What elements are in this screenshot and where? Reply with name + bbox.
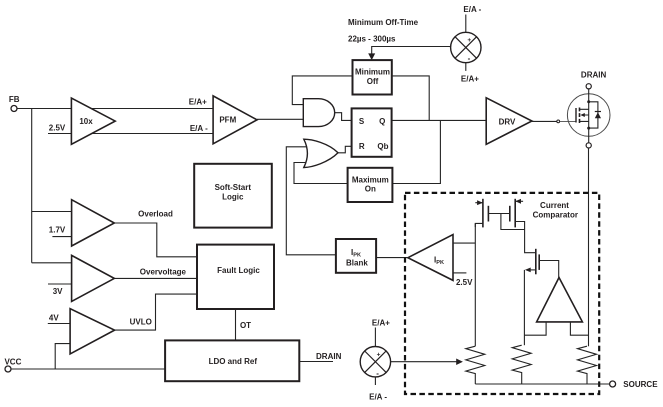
svg-text:E/A -: E/A - — [190, 124, 208, 133]
svg-text:+: + — [467, 37, 471, 44]
transistor Q1 power MOSFET — [567, 89, 610, 143]
svg-text:4V: 4V — [49, 314, 59, 323]
amplifier 10x — [71, 98, 115, 144]
wire Q output to DRV — [392, 119, 487, 121]
wire mirror diode connection — [501, 214, 525, 230]
block Minimum Off — [353, 60, 392, 94]
wire PFM output to AND gate — [257, 118, 303, 120]
svg-text:Blank: Blank — [346, 259, 368, 268]
block Current Comparator dashed boundary — [405, 193, 599, 394]
wire multiplier to Minimum Off with arrow — [368, 47, 451, 61]
wire bottom multiplier to R1 with arrow — [391, 359, 463, 366]
svg-text:Fault Logic: Fault Logic — [217, 266, 260, 275]
svg-text:-: - — [376, 369, 379, 378]
wire FB to overvoltage comparator input — [32, 262, 72, 264]
wire E/A+ into top multiplier — [465, 63, 467, 71]
svg-text:S: S — [359, 117, 365, 126]
svg-text:Overvoltage: Overvoltage — [140, 267, 187, 276]
comparator overvoltage — [72, 255, 115, 301]
svg-text:Qb: Qb — [377, 142, 388, 151]
op-amp U4 current comparator — [537, 278, 583, 322]
wire DRV output to MOSFET gate — [532, 120, 576, 123]
block Maximum On — [348, 168, 393, 202]
wire IPK Blank output to OR gate — [286, 147, 336, 255]
resistor R2 — [512, 345, 531, 384]
driver DRV — [486, 98, 532, 145]
comparator IPK — [408, 235, 453, 281]
wire VCC rail to LDO — [11, 368, 165, 370]
svg-text:22µs - 300µs: 22µs - 300µs — [348, 35, 396, 44]
resistor R1 — [466, 346, 485, 384]
wire source sense rail — [475, 383, 609, 385]
wire 2.5V reference to 10x amp and PFM E/A- input — [48, 133, 213, 135]
wire overvoltage comparator output to Fault Logic — [114, 277, 197, 279]
wire mirror gates — [488, 213, 509, 215]
svg-text:Current: Current — [540, 201, 569, 210]
wire 3V stub — [48, 283, 72, 285]
svg-text:10x: 10x — [79, 117, 93, 126]
svg-text:DRV: DRV — [499, 118, 516, 127]
wire FB vertical to comparators — [31, 109, 33, 263]
block Soft-Start Logic — [194, 164, 272, 228]
svg-text:1.7V: 1.7V — [49, 226, 66, 235]
svg-text:-: - — [468, 54, 471, 63]
wire IPK comparator output to IPK Blank — [376, 257, 408, 259]
comparator PFM — [213, 96, 257, 144]
wire 1.7V stub — [52, 236, 71, 238]
svg-text:3V: 3V — [53, 287, 63, 296]
block LDO and Ref — [165, 340, 299, 381]
wire FB to PFM E/A+ input — [17, 108, 213, 110]
block SR latch U3 — [352, 108, 392, 156]
wire op-amp left input leg — [524, 322, 546, 335]
wire 2.5V stub (IPK comparator) — [453, 272, 466, 274]
svg-text:Overload: Overload — [138, 210, 173, 219]
node VCC terminal — [4, 358, 21, 373]
svg-text:+: + — [377, 352, 381, 359]
wire OT from Fault Logic to LDO — [235, 309, 237, 340]
wire DRAIN output stub from LDO — [299, 361, 333, 363]
svg-text:DRAIN: DRAIN — [581, 71, 607, 80]
wire VCC to UVLO comparator input — [55, 344, 70, 369]
svg-text:UVLO: UVLO — [130, 318, 152, 327]
comparator UVLO — [70, 309, 115, 354]
wire left mirror leg down to resistor — [474, 223, 476, 346]
multiplier U5 (E/A bottom) — [360, 347, 390, 379]
transistor Q4 cascode — [525, 249, 539, 274]
svg-text:Off: Off — [367, 77, 379, 86]
wire op-amp right input leg — [570, 322, 588, 335]
svg-text:FB: FB — [9, 95, 20, 104]
wire Maximum On output to OR gate — [294, 163, 348, 184]
svg-text:E/A+: E/A+ — [461, 75, 479, 84]
gate AND — [303, 99, 334, 127]
transistor Q3 mirror right — [510, 199, 536, 253]
node DRAIN terminal — [581, 71, 607, 89]
wire Minimum Off right side to Q line — [392, 76, 429, 121]
wire Q4 source down to resistor — [523, 270, 525, 345]
svg-text:2.5V: 2.5V — [49, 124, 66, 133]
multiplier U2 (E/A top) — [451, 32, 481, 63]
svg-text:Minimum: Minimum — [355, 68, 390, 77]
block IPK Blank — [336, 239, 376, 273]
svg-text:E/A -: E/A - — [369, 393, 387, 402]
comparator overload — [72, 200, 115, 246]
svg-text:E/A -: E/A - — [463, 5, 481, 14]
svg-text:E/A+: E/A+ — [189, 98, 207, 107]
wire AND output to S input — [335, 113, 352, 121]
svg-text:LDO and Ref: LDO and Ref — [209, 357, 258, 366]
wire UVLO comparator output to Fault Logic — [115, 294, 197, 330]
node MOSFET source terminal — [586, 143, 591, 148]
svg-text:PFM: PFM — [219, 115, 236, 124]
svg-text:2.5V: 2.5V — [456, 278, 473, 287]
svg-text:Minimum Off-Time: Minimum Off-Time — [348, 18, 419, 27]
svg-text:Comparator: Comparator — [533, 211, 578, 220]
svg-text:E/A+: E/A+ — [372, 319, 390, 328]
svg-text:Maximum: Maximum — [352, 176, 389, 185]
wire E/A+ into bottom multiplier — [374, 328, 376, 347]
wire overload comparator output to Fault Logic — [114, 223, 197, 257]
node SOURCE terminal — [610, 380, 659, 389]
svg-text:R: R — [359, 142, 365, 151]
svg-text:Q: Q — [379, 117, 385, 126]
svg-text:VCC: VCC — [4, 358, 21, 367]
wire IPK comparator top input — [453, 242, 475, 244]
block Fault Logic — [197, 245, 274, 309]
svg-text:Soft-Start: Soft-Start — [215, 183, 252, 192]
wire E/A- into top multiplier — [465, 15, 467, 33]
node FB terminal — [9, 95, 20, 112]
svg-text:DRAIN: DRAIN — [316, 352, 342, 361]
wire Minimum Off output to AND gate — [292, 76, 352, 105]
resistor R3 — [578, 346, 597, 384]
wire MOSFET source down to sense resistor — [588, 148, 590, 346]
svg-text:On: On — [365, 185, 376, 194]
gate OR — [304, 139, 338, 167]
svg-text:SOURCE: SOURCE — [623, 380, 658, 389]
wire OR output to R input — [338, 146, 352, 153]
wire FB to overload comparator input — [32, 211, 72, 213]
wire 4V stub — [48, 323, 70, 325]
wire Q branch to Maximum On — [392, 120, 440, 183]
wire Q4 gate from op-amp output — [539, 261, 559, 278]
transistor Q2 mirror left — [475, 199, 488, 228]
svg-text:OT: OT — [240, 321, 251, 330]
svg-text:Logic: Logic — [222, 193, 244, 202]
wire E/A- below bottom multiplier — [374, 377, 376, 385]
